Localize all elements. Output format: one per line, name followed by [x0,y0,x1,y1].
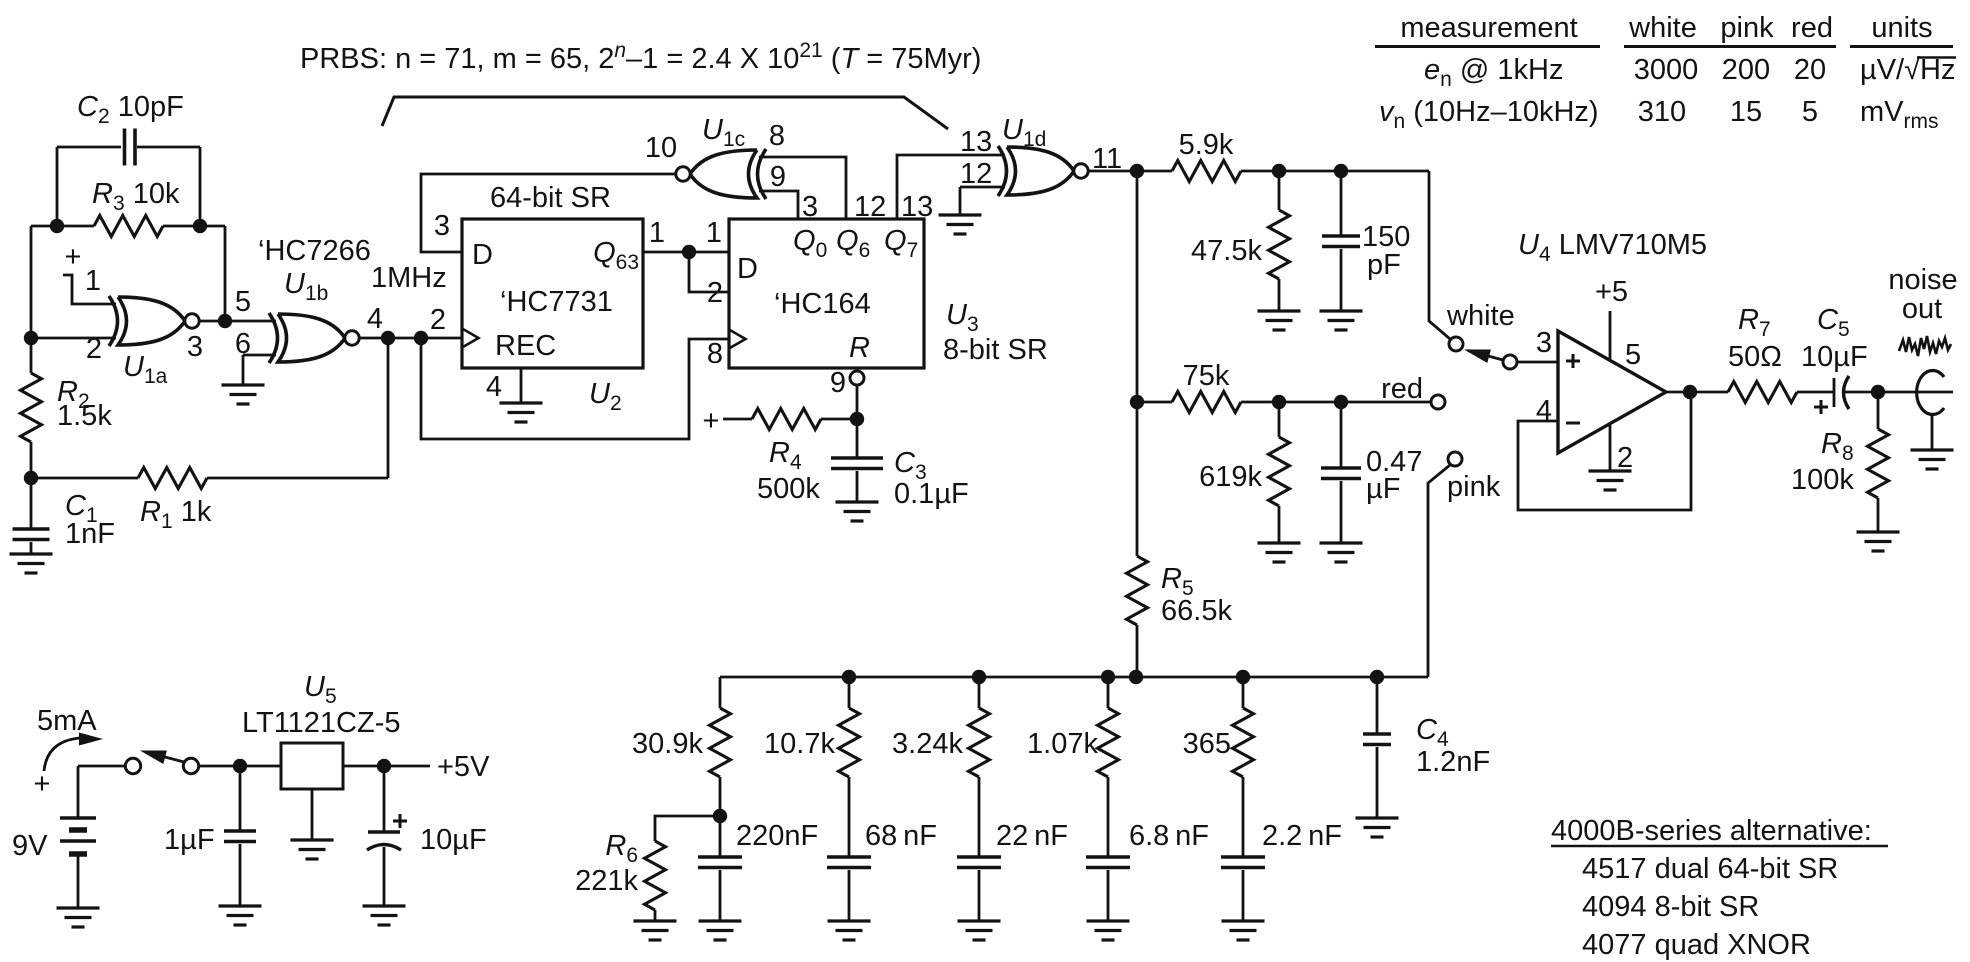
ground R6 [634,919,677,922]
svg-text:R3 10k: R3 10k [92,178,180,215]
svg-text:1nF: 1nF [65,518,115,550]
svg-text:pink: pink [1447,471,1501,503]
pin 9 bubble U3 [850,371,864,385]
switch wiper [163,757,184,763]
svg-text:‘HC7266: ‘HC7266 [258,235,371,267]
resistor 5.9k [1172,161,1241,182]
switch circle 2 [183,758,198,773]
svg-text:75k: 75k [1183,360,1230,392]
svg-text:310: 310 [1638,96,1686,128]
svg-text:12: 12 [960,158,992,190]
ground U5 [311,789,314,840]
svg-text:5: 5 [1625,339,1641,371]
svg-text:200: 200 [1722,54,1770,86]
svg-text:30.9k: 30.9k [632,728,703,760]
resistor 3.24k [978,677,981,708]
svg-text:4094 8-bit SR: 4094 8-bit SR [1582,891,1759,923]
svg-text:1µF: 1µF [164,824,215,856]
node opamp out [1683,385,1697,399]
svg-text:white: white [1628,12,1697,44]
resistor R8 100k [1877,392,1880,429]
node bus 10.7k [842,670,856,684]
svg-text:µF: µF [1366,473,1400,505]
ground battery [57,906,100,909]
capacitor 10uF polarized [383,766,386,832]
resistor R2 1.5k [30,338,33,373]
brace under PRBS [382,97,948,129]
output connector [1917,371,1944,415]
node red left [1130,395,1144,409]
svg-text:R: R [849,332,870,364]
ground 68 nF [828,919,871,922]
svg-text:2: 2 [707,277,723,309]
svg-text:1: 1 [85,265,101,297]
wire pin3 [1517,361,1558,364]
svg-text:47.5k: 47.5k [1191,235,1262,267]
capacitor 0.47uF [1340,402,1343,468]
wire U1a pin 2 [31,337,116,340]
ground 150pF [1320,309,1363,312]
ground output jack [1911,448,1954,451]
resistor 619k [1278,402,1281,437]
ground C4 [1356,816,1399,819]
wire left rail [30,226,33,338]
resistor 1.07k [1107,677,1110,708]
resistor R6 221k [655,816,720,841]
node bus 3.24k [972,670,986,684]
node bus R5 [1129,670,1143,684]
ground U2 pin4 [520,368,523,403]
IC U3 HC164 box [729,219,924,368]
wire node5 row [199,320,276,323]
wire +5 supply [1609,311,1612,361]
node 47.5k top [1272,164,1286,178]
node R4 C3 [850,412,864,426]
node C5 R8 [1871,385,1885,399]
red terminal circle [1431,395,1445,409]
svg-text:68 nF: 68 nF [865,820,937,852]
ground 47.5k [1258,309,1301,312]
svg-text:500k: 500k [757,473,820,505]
ground 10uF [363,904,406,907]
node 619k top [1272,395,1286,409]
svg-text:2: 2 [86,333,102,365]
svg-text:10µF: 10µF [1801,341,1868,373]
svg-text:8: 8 [707,338,723,370]
ground 6.8 nF [1087,919,1130,922]
ground 220nF [699,919,742,922]
svg-text:1.2nF: 1.2nF [1416,746,1490,778]
label + C5 [1814,406,1828,409]
label + 10uF [393,820,407,823]
svg-text:2: 2 [430,304,446,336]
capacitor 2.2 nF [1221,855,1265,859]
resistor 30.9k [719,677,722,708]
svg-text:+5V: +5V [437,751,490,783]
svg-text:4000B-series alternative:: 4000B-series alternative: [1551,815,1872,847]
svg-text:red: red [1381,373,1423,405]
feedback wire pin4 [1518,392,1691,510]
svg-text:9: 9 [770,161,786,193]
svg-text:4: 4 [486,371,502,403]
capacitor 150pF [1340,171,1343,236]
svg-text:220nF: 220nF [736,820,818,852]
svg-text:4: 4 [367,303,383,335]
resistor 75k [1137,401,1172,404]
svg-text:100k: 100k [1791,464,1854,496]
capacitor 1uF [239,766,242,831]
svg-text:9V: 9V [12,830,48,862]
svg-text:8-bit SR: 8-bit SR [943,334,1048,366]
capacitor C3 0.1uF [856,419,859,458]
node R6 tap [713,809,727,823]
noise waveform squiggle [1899,336,1951,356]
svg-text:+: + [34,768,51,800]
svg-text:pF: pF [1367,249,1401,281]
capacitor 68 nF [827,855,871,859]
svg-text:4517 dual 64-bit SR: 4517 dual 64-bit SR [1582,853,1838,885]
svg-text:1.07k: 1.07k [1027,728,1098,760]
capacitor C5 10uF polarized [1833,378,1836,407]
ground C3 [836,500,879,503]
svg-text:50Ω: 50Ω [1728,341,1782,373]
svg-text:365: 365 [1183,728,1231,760]
opamp pin3 circle [1503,355,1517,369]
svg-text:6.8 nF: 6.8 nF [1129,820,1209,852]
ground 0.47uF [1320,541,1363,544]
opamp minus [1566,422,1580,425]
wire U1c pin 8 [759,157,846,219]
xnor gate U1a [118,297,185,345]
svg-text:2: 2 [1617,442,1633,474]
node bus C4 [1370,670,1384,684]
svg-text:+: + [65,241,82,273]
wire C2 right leg [199,147,202,226]
resistor 47.5k [1278,171,1281,210]
svg-text:221k: 221k [575,865,638,897]
svg-text:2.2 nF: 2.2 nF [1262,820,1342,852]
node 4 clk tap [414,331,428,345]
xnor gate U1d [1007,147,1074,195]
capacitor 22 nF [957,855,1001,859]
svg-text:10.7k: 10.7k [764,728,835,760]
node 11 [1130,164,1144,178]
xnor gate U1c [690,150,757,198]
svg-text:+: + [703,405,720,437]
IC U5 LT1121 box [281,743,343,789]
capacitor C1 1nF [30,478,33,529]
node 5 [218,314,232,328]
svg-text:5.9k: 5.9k [1179,129,1234,161]
capacitor C2 [57,146,121,149]
switch wiper arrow [1468,351,1503,361]
wire U1d pin 12 [960,186,1005,189]
wire U1c pin 9 [759,191,798,219]
svg-text:R1 1k: R1 1k [140,496,212,533]
capacitor 220nF [698,855,742,859]
resistor R3 [31,225,94,228]
wire clock loop to U3 pin8 [421,338,729,439]
bottom bus wire [720,676,1428,679]
svg-text:66.5k: 66.5k [1161,595,1232,627]
svg-text:D: D [472,239,493,271]
svg-text:64-bit SR: 64-bit SR [490,182,611,214]
node 4 R1 tap [381,331,395,345]
node bus 365 [1236,670,1250,684]
wire opamp out [1666,391,1728,394]
node C1 R1 [24,471,38,485]
ground opamp pin2 [1609,424,1612,471]
wire U1b pin 6 [243,354,276,357]
svg-text:1: 1 [649,217,665,249]
capacitor C4 1.2nF [1376,677,1379,734]
ground C1 [10,552,53,555]
svg-text:5: 5 [235,286,251,318]
svg-text:5: 5 [1802,96,1818,128]
svg-text:+5: +5 [1595,276,1628,308]
wire Q63 to U3 pin2 [689,252,729,292]
svg-text:15: 15 [1730,96,1762,128]
svg-text:3: 3 [187,331,203,363]
wire pink drop [1428,465,1450,677]
svg-text:3.24k: 3.24k [892,728,963,760]
svg-text:5mA: 5mA [37,705,97,737]
svg-text:white: white [1446,300,1515,332]
ground 619k [1258,541,1301,544]
svg-text:20: 20 [1794,54,1826,86]
svg-text:4077 quad XNOR: 4077 quad XNOR [1582,929,1811,961]
ground 2.2 nF [1222,919,1265,922]
ground 1uF [219,904,262,907]
wire Q7 to U1d pin 13 [897,155,1005,219]
svg-text:13: 13 [960,126,992,158]
node bus 1.07k [1101,670,1115,684]
svg-text:units: units [1871,12,1932,44]
svg-text:REC: REC [495,330,556,362]
ground U1d pin12 [959,187,962,215]
svg-text:out: out [1902,293,1942,325]
node 10uF [377,759,391,773]
svg-text:LT1121CZ-5: LT1121CZ-5 [242,707,401,739]
node 1uF [233,759,247,773]
svg-text:C2 10pF: C2 10pF [77,91,184,128]
svg-text:‘HC7731: ‘HC7731 [500,286,613,318]
wire jack ground [1931,414,1934,450]
wire battery to switch [78,765,125,768]
resistor 365 [1242,677,1245,708]
IC U2 HC7731 box [462,219,643,368]
svg-text:3000: 3000 [1634,54,1699,86]
svg-text:1.5k: 1.5k [57,400,112,432]
node 0.47uF top [1334,395,1348,409]
opamp plus [1566,360,1580,363]
opamp U4 triangle [1558,331,1666,453]
pink terminal circle [1448,452,1462,466]
svg-text:D: D [737,253,758,285]
svg-text:vn (10Hz–10kHz): vn (10Hz–10kHz) [1379,96,1599,133]
svg-text:10: 10 [645,132,677,164]
svg-text:9: 9 [830,367,846,399]
svg-text:measurement: measurement [1400,12,1577,44]
resistor R7 50ohm [1728,382,1797,403]
svg-text:noise: noise [1888,264,1957,296]
capacitor 6.8 nF [1086,855,1130,859]
ground R8 [1857,530,1900,533]
svg-text:0.1µF: 0.1µF [894,478,969,510]
node Q63 [682,245,696,259]
resistor 10.7k [848,677,851,708]
current arrow 5mA [44,738,80,771]
resistor R4 500k [723,418,752,421]
wire U1b out to U2 [359,337,462,340]
wire U5 out [343,765,430,768]
wire to output jack [1878,391,1953,394]
wire switch to U5 [199,765,281,768]
white terminal circle [1449,337,1463,351]
clock triangle U2 [462,329,479,348]
resistor R1 1k [31,477,138,480]
node R3 left [50,219,64,233]
svg-text:1MHz: 1MHz [371,262,447,294]
svg-text:10µF: 10µF [420,824,487,856]
svg-text:619k: 619k [1199,461,1262,493]
svg-text:3: 3 [434,210,450,242]
ground U1b pin6 [242,355,245,385]
svg-text:PRBS: n = 71, m = 65, 2n–1 = 2: PRBS: n = 71, m = 65, 2n–1 = 2.4 X 1021 … [300,39,981,75]
svg-text:8: 8 [769,120,785,152]
node U1a pin2 [24,331,38,345]
wire white drop [1429,171,1450,339]
xnor gate U1b [278,314,345,362]
svg-text:red: red [1791,12,1833,44]
svg-text:3: 3 [1536,327,1552,359]
wire pin9 to R4 node [856,385,859,419]
node 150pF top [1334,164,1348,178]
node R3 right [193,219,207,233]
resistor R5 66.5k [1127,556,1148,625]
battery 9V [77,766,80,818]
svg-text:1: 1 [706,217,722,249]
wire U1a pin 1 [63,275,116,304]
wire C2 left leg [56,147,59,226]
wire U1d out [1088,170,1172,173]
wire R3 to node 5 [224,226,227,321]
ground 22 nF [958,919,1001,922]
wire Q63 to U3 pin1 [643,251,729,254]
svg-text:‘HC164: ‘HC164 [774,288,871,320]
wire U1c out to U2 D pin 3 [421,174,676,252]
svg-text:pink: pink [1720,12,1774,44]
switch circle 1 [125,758,140,773]
clock triangle U3 [729,330,746,349]
svg-text:22 nF: 22 nF [996,820,1068,852]
wire rail 11 down [1136,171,1139,556]
